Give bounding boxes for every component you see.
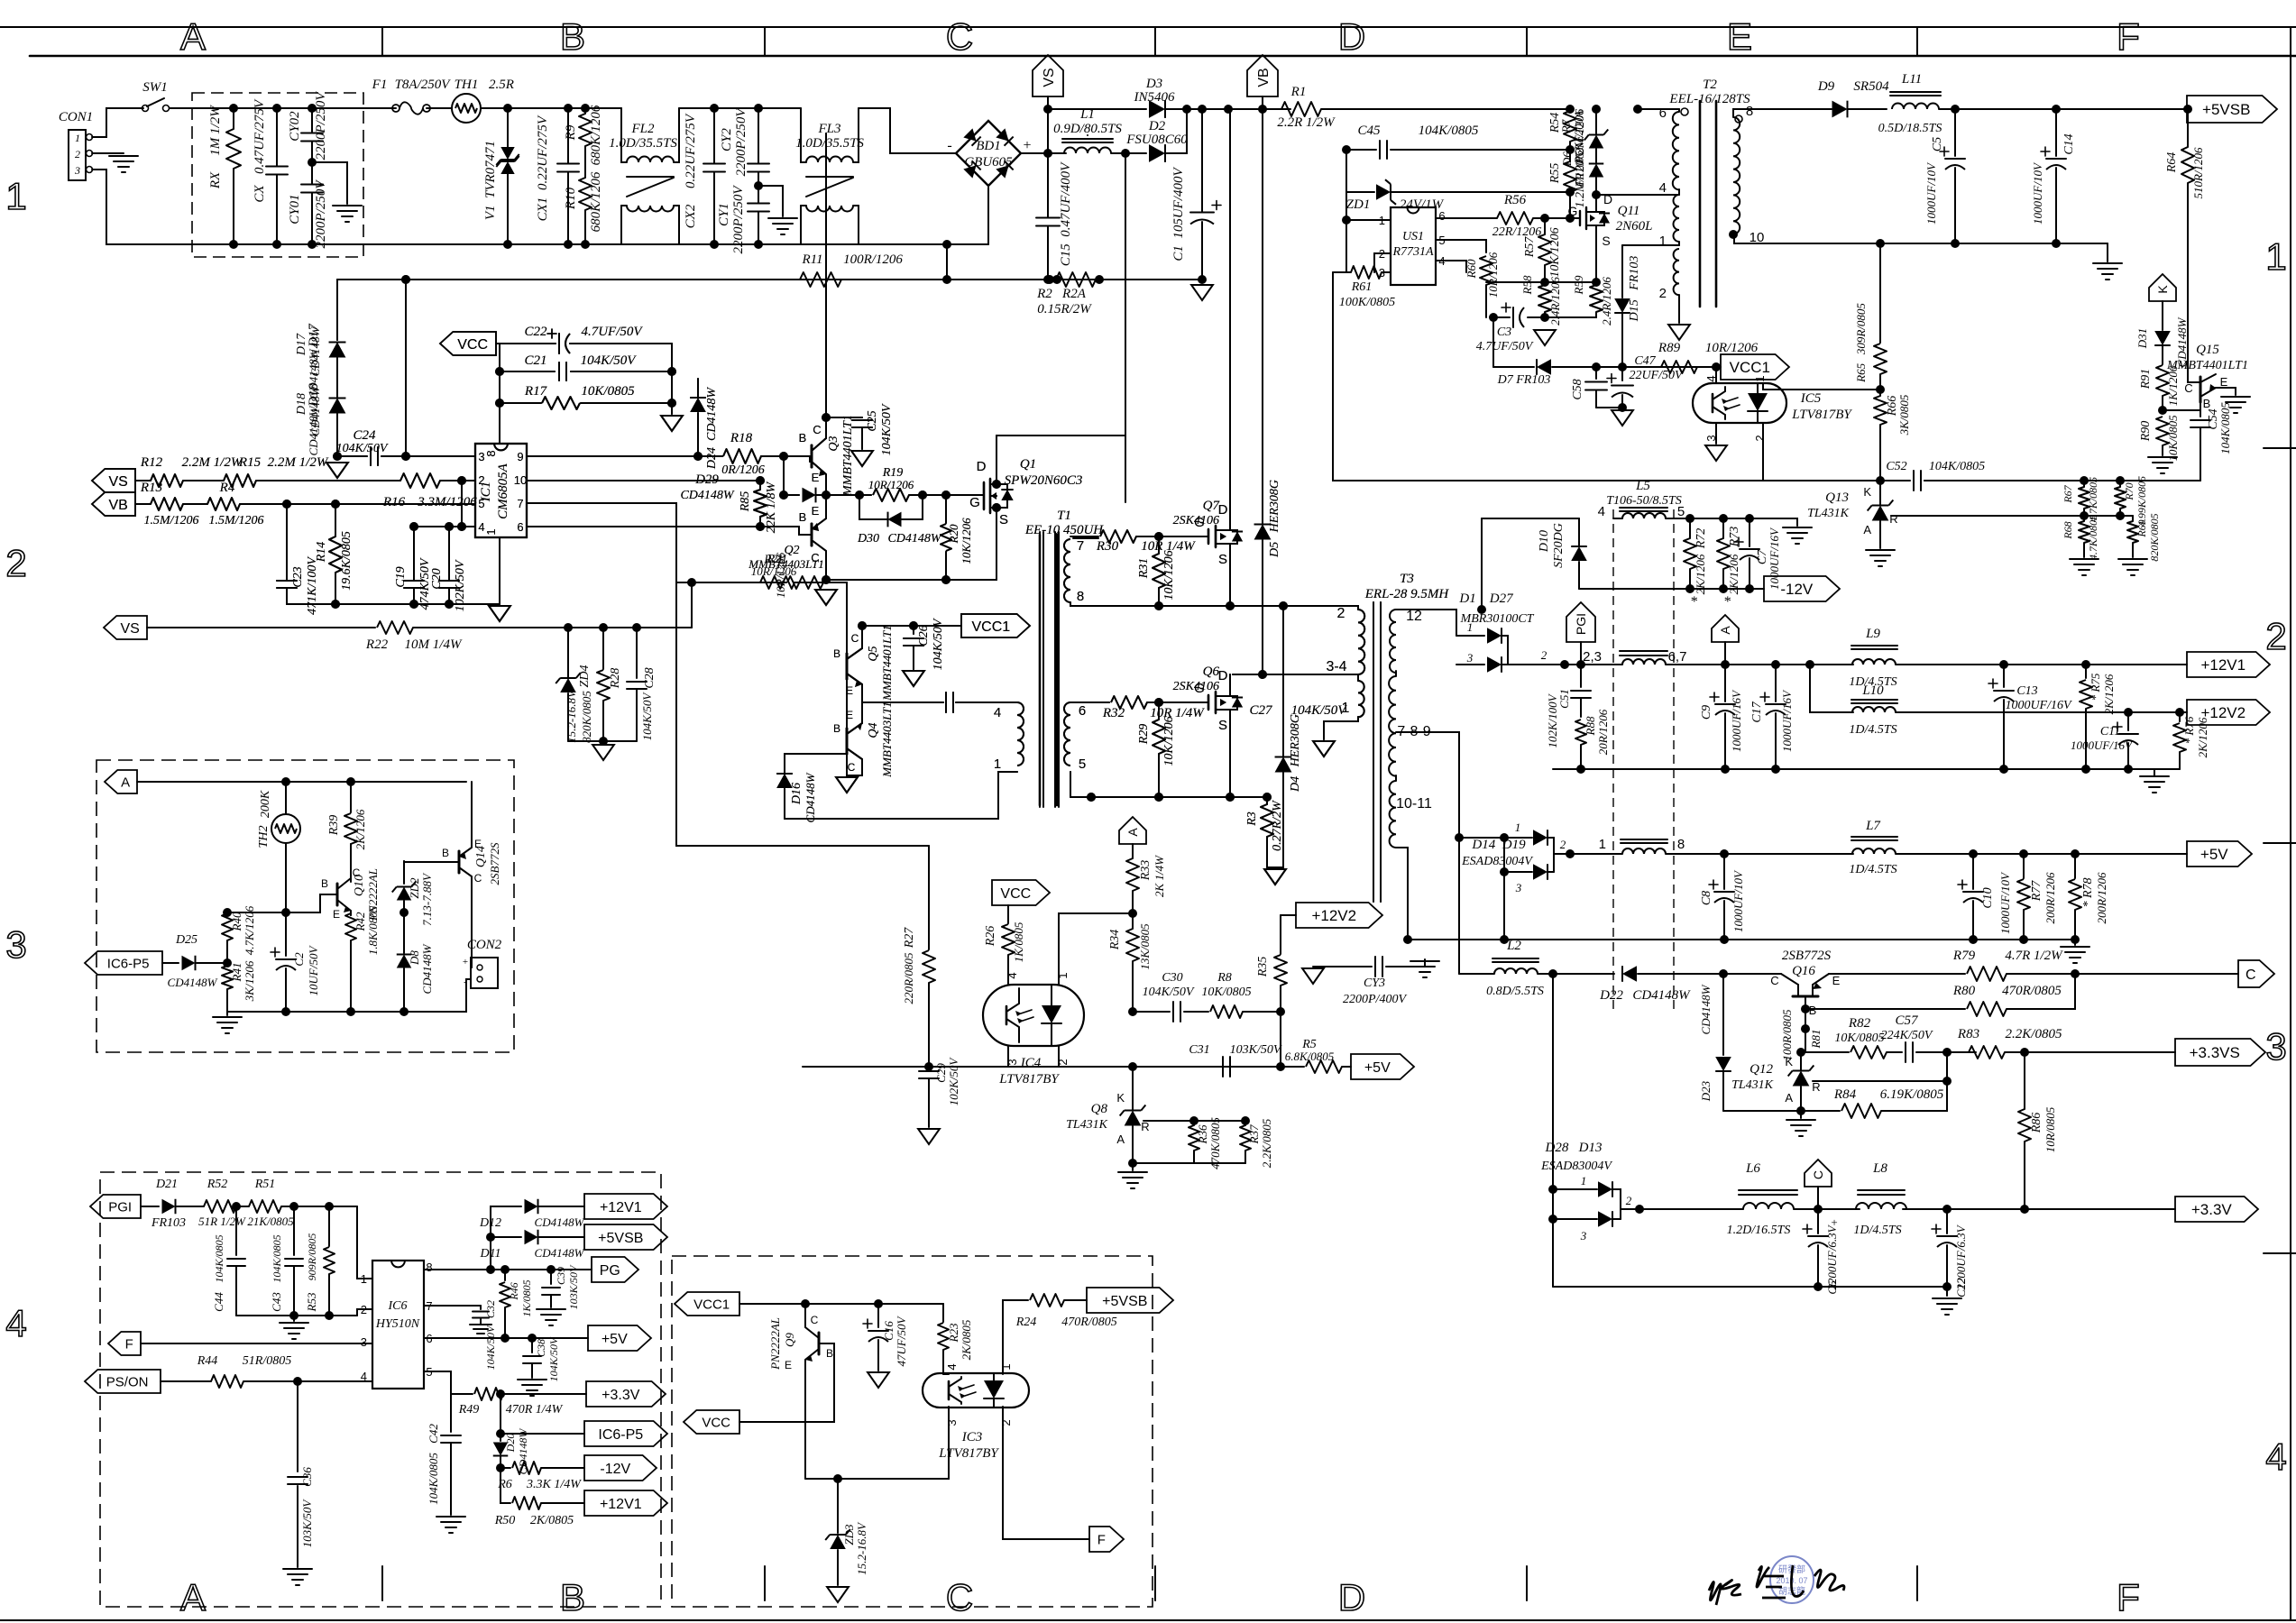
- resistor R16: [400, 473, 440, 488]
- capacitor C36: [297, 1381, 298, 1472]
- transistor Q9: [818, 1333, 821, 1354]
- svg-text:D10: D10: [1538, 530, 1551, 553]
- ground triangle under C26: [903, 671, 924, 686]
- ground bars -12V: [1783, 518, 1797, 526]
- net flag +12V1: [2187, 652, 2270, 677]
- svg-text:R2 R2A: R2 R2A: [1036, 287, 1087, 301]
- svg-text:4.7K/1206: 4.7K/1206: [243, 905, 256, 955]
- connector CON1: [69, 130, 86, 180]
- svg-text:+3.3V: +3.3V: [602, 1388, 640, 1403]
- ground at CON1: [109, 155, 138, 157]
- T3 left winding 3-4 to 1: [1358, 681, 1364, 717]
- resistor R15: [183, 480, 224, 481]
- svg-text:D18: D18: [307, 383, 321, 408]
- svg-text:104K/50V: 104K/50V: [581, 353, 638, 368]
- capacitor C26: [913, 626, 914, 634]
- IC4 pin3 wire: [1007, 1046, 1009, 1067]
- ground triangle C16: [868, 1372, 889, 1388]
- svg-text:102K/50V: 102K/50V: [947, 1057, 960, 1106]
- svg-text:0.22UF/275V: 0.22UF/275V: [684, 113, 698, 188]
- svg-text:R9: R9: [564, 124, 578, 141]
- svg-text:3K/1206: 3K/1206: [243, 960, 256, 1002]
- MOSFET Q1: [983, 482, 985, 509]
- resistor R85: [754, 490, 767, 517]
- T3 tap 3-4 row: [1233, 674, 1358, 675]
- svg-text:B: B: [826, 1347, 833, 1360]
- ground bars R90: [2148, 456, 2177, 458]
- svg-text:B: B: [560, 1576, 585, 1618]
- svg-text:2: 2: [478, 473, 484, 487]
- svg-text:R91: R91: [2139, 369, 2153, 390]
- svg-text:104K/50V: 104K/50V: [880, 403, 894, 455]
- T1 drive winding 4-1: [1017, 702, 1024, 766]
- row 533 to C54 column: [1924, 480, 2200, 481]
- svg-text:+3.3VS: +3.3VS: [2190, 1044, 2240, 1061]
- ground bars +5V return: [2074, 940, 2076, 945]
- +5V return rail: [1408, 939, 2075, 940]
- svg-text:FL2: FL2: [630, 122, 655, 136]
- ground triangle under Q2: [815, 590, 837, 605]
- svg-text:LTV817BY: LTV817BY: [1791, 408, 1852, 422]
- ground triangle below D18: [326, 463, 348, 478]
- svg-text:BD1: BD1: [976, 139, 1001, 153]
- svg-text:3: 3: [5, 923, 26, 966]
- svg-text:1000UF/16V: 1000UF/16V: [1768, 527, 1781, 590]
- svg-text:7: 7: [517, 497, 523, 510]
- Q5/Q4 emitter join and C27 row: [862, 684, 943, 702]
- svg-text:103K/50V: 103K/50V: [1230, 1043, 1282, 1057]
- svg-text:R: R: [1141, 1120, 1149, 1133]
- svg-text:10M 1/4W: 10M 1/4W: [405, 637, 463, 652]
- net flag -12V in IC6 block: [584, 1455, 657, 1481]
- MOSFET Q7: [1208, 529, 1209, 544]
- svg-text:-12V: -12V: [1780, 581, 1814, 598]
- svg-text:B: B: [321, 877, 328, 890]
- pin9 row to R18: [527, 455, 722, 457]
- svg-text:+: +: [1023, 138, 1031, 153]
- resistor R34: [1132, 913, 1134, 929]
- resistor R1: [1281, 102, 1321, 116]
- svg-text:C47: C47: [1634, 354, 1656, 368]
- resistor R32 row: [1070, 701, 1109, 703]
- net flag +3.3VS: [2175, 1039, 2265, 1066]
- varistor V1: [503, 104, 512, 113]
- svg-text:10K/0805: 10K/0805: [2166, 415, 2180, 462]
- R54 R55 column from top rail: [1566, 105, 1575, 114]
- net flag A left: [105, 770, 137, 793]
- svg-text:TL431K: TL431K: [1066, 1118, 1108, 1132]
- svg-text:B: B: [1809, 1004, 1817, 1017]
- svg-text:R58: R58: [1520, 275, 1534, 295]
- svg-text:820K/0805: 820K/0805: [2148, 513, 2161, 561]
- svg-text:C10: C10: [1981, 887, 1995, 908]
- svg-text:R15: R15: [238, 455, 262, 470]
- drive winding bottom return: [785, 772, 1017, 819]
- svg-text:C36: C36: [300, 1467, 314, 1487]
- capacitor C5: [1951, 105, 1960, 114]
- svg-text:R67: R67: [2062, 484, 2074, 503]
- svg-text:C21: C21: [524, 353, 546, 368]
- IC3 pin2 to F flag: [1003, 1407, 1089, 1539]
- svg-text:D25: D25: [175, 933, 197, 947]
- base tie Q5 Q4: [846, 679, 848, 729]
- net flag +12V2: [2187, 700, 2270, 725]
- diode D24: [697, 379, 699, 397]
- resistor R8: [1210, 1005, 1243, 1018]
- TVS R7 P6KE200A and diode D6: [1592, 105, 1601, 114]
- transistor Q4: [846, 729, 849, 754]
- pin4 row left caps: [414, 526, 462, 527]
- svg-text:CON2: CON2: [467, 938, 502, 952]
- transistor Q3: [811, 445, 813, 467]
- IC5 pin1 wire: [1763, 383, 1880, 390]
- ground triangle IC1: [489, 606, 510, 621]
- svg-text:R40: R40: [230, 912, 243, 931]
- thermistor TH2: [285, 782, 287, 814]
- capacitor C57: [1887, 1051, 1902, 1053]
- svg-text:SPW20N60C3: SPW20N60C3: [1005, 473, 1083, 488]
- svg-text:R72: R72: [1694, 528, 1708, 550]
- MOSFET Q11: [1579, 211, 1581, 225]
- svg-text:C9: C9: [1700, 705, 1713, 720]
- resistor R84: [1725, 1110, 1840, 1112]
- optocoupler IC4: [983, 985, 1084, 1046]
- svg-text:10R/1206: 10R/1206: [774, 552, 787, 598]
- svg-text:2K/0805: 2K/0805: [530, 1514, 574, 1527]
- T2 secondary winding 8-10: [1733, 109, 1740, 117]
- ground triangle IC1: [489, 606, 510, 621]
- resistor R60: [1480, 256, 1492, 285]
- svg-text:6: 6: [517, 520, 523, 534]
- drive winding bottom return: [785, 772, 1017, 819]
- capacitor CY02: [301, 133, 323, 134]
- svg-text:R28: R28: [609, 668, 622, 690]
- svg-text:C15 0.47UF/400V: C15 0.47UF/400V: [1059, 161, 1073, 266]
- svg-text:A: A: [1125, 828, 1140, 837]
- D23 to R84 row: [1723, 1110, 1725, 1112]
- svg-text:D: D: [1338, 15, 1365, 58]
- svg-text:D30: D30: [857, 532, 879, 546]
- svg-text:VB: VB: [108, 498, 127, 513]
- +5V winding 1-8: [1570, 853, 1622, 855]
- svg-text:Q9: Q9: [783, 1333, 796, 1347]
- switch SW1: [142, 105, 149, 112]
- resistor R59: [1590, 285, 1603, 312]
- capacitor C14: [2052, 105, 2061, 114]
- resistor R76: [2179, 712, 2181, 721]
- resistor R49 to +3.3V: [451, 1393, 473, 1395]
- svg-text:R36: R36: [1196, 1124, 1209, 1144]
- IC1 ground rail: [287, 603, 500, 605]
- svg-text:R39: R39: [327, 815, 341, 837]
- svg-text:3: 3: [1580, 1229, 1587, 1242]
- net flag -12V: [1764, 576, 1840, 601]
- net flag +3.3V in IC6 block: [586, 1381, 666, 1407]
- pin4 row left caps: [414, 526, 462, 527]
- svg-text:R27: R27: [903, 927, 916, 949]
- svg-text:1D/4.5TS: 1D/4.5TS: [1853, 1224, 1901, 1237]
- svg-text:8: 8: [1077, 589, 1084, 604]
- diode D17: [329, 343, 346, 358]
- svg-text:R: R: [1889, 512, 1897, 526]
- svg-text:1.5M/1206: 1.5M/1206: [143, 514, 198, 527]
- svg-text:3: 3: [2265, 1025, 2286, 1068]
- svg-text:R84: R84: [1833, 1087, 1857, 1102]
- svg-text:D21: D21: [155, 1178, 178, 1191]
- IC6-P5 row: [500, 1394, 501, 1434]
- svg-text:L5: L5: [1635, 479, 1650, 493]
- svg-text:-12V: -12V: [600, 1462, 630, 1477]
- source row 884: [1070, 796, 1267, 798]
- svg-text:3: 3: [1515, 881, 1522, 894]
- svg-text:+5VSB: +5VSB: [2202, 101, 2250, 118]
- svg-text:F: F: [125, 1336, 133, 1352]
- svg-text:K: K: [1863, 485, 1871, 499]
- svg-text:FR107: FR107: [1573, 155, 1586, 188]
- capacitor CX1: [557, 163, 579, 165]
- svg-text:1: 1: [361, 1272, 367, 1286]
- svg-text:2: 2: [1626, 1194, 1632, 1207]
- wire D19 jog to return rail: [1503, 838, 1505, 940]
- svg-text:1000UF/10V: 1000UF/10V: [1924, 161, 1938, 225]
- net flag VCC1 in IC3 block: [675, 1292, 739, 1316]
- svg-text:+5V: +5V: [1364, 1060, 1391, 1076]
- left node column: [1345, 150, 1347, 272]
- capacitor C26: [913, 626, 914, 634]
- svg-text:R30: R30: [1096, 539, 1119, 554]
- svg-text:1000UF/10V: 1000UF/10V: [1731, 869, 1745, 932]
- ground triangle below R17 column: [661, 416, 683, 431]
- svg-text:C: C: [848, 761, 856, 774]
- svg-text:E: E: [1727, 15, 1752, 58]
- svg-text:0.47UF/275V: 0.47UF/275V: [253, 98, 267, 174]
- svg-text:E: E: [785, 1359, 792, 1371]
- svg-text:22K 1/8W: 22K 1/8W: [765, 481, 778, 533]
- IC4 pin1 wire to R33 node: [1059, 913, 1133, 985]
- svg-text:2: 2: [2265, 615, 2286, 657]
- net flag +5VSB: [2187, 96, 2277, 123]
- net flag VS: [1033, 55, 1063, 96]
- VCC1 column to Q3 collector: [825, 133, 827, 438]
- diode D4: [1282, 606, 1284, 756]
- IC6 block ground row: [236, 1315, 357, 1316]
- svg-text:C2: C2: [292, 952, 306, 967]
- resistor R50 to +12V1: [501, 1468, 510, 1503]
- resistor R83: [1969, 1046, 2005, 1059]
- svg-text:1: 1: [75, 132, 80, 144]
- svg-text:L9: L9: [1865, 627, 1880, 641]
- svg-text:ESAD83004V: ESAD83004V: [1461, 855, 1533, 868]
- resistor R9: [579, 114, 592, 146]
- net flag A: [1712, 615, 1739, 642]
- svg-text:2200UF/6.3V: 2200UF/6.3V: [1825, 1224, 1839, 1289]
- svg-text:B: B: [799, 431, 807, 445]
- svg-text:C16: C16: [882, 1321, 895, 1341]
- svg-text:10: 10: [514, 473, 527, 487]
- svg-text:IC3: IC3: [961, 1430, 983, 1444]
- svg-text:2: 2: [75, 148, 80, 160]
- svg-text:R49: R49: [458, 1403, 480, 1417]
- svg-text:C32: C32: [484, 1300, 497, 1318]
- svg-text:C58: C58: [1571, 379, 1584, 399]
- wire bridge plus to L1: [1021, 152, 1066, 154]
- svg-text:104K/0805: 104K/0805: [427, 1453, 440, 1505]
- svg-text:R18: R18: [730, 431, 753, 445]
- svg-text:2.2K/0805: 2.2K/0805: [1260, 1118, 1273, 1168]
- ground in filter box: [333, 205, 362, 206]
- svg-text:S: S: [1218, 552, 1227, 567]
- svg-text:3.3K 1/4W: 3.3K 1/4W: [526, 1478, 582, 1491]
- svg-text:CX2: CX2: [684, 204, 698, 228]
- svg-text:C23: C23: [291, 566, 305, 587]
- svg-text:CD4148W: CD4148W: [168, 976, 218, 989]
- svg-text:ERL-28 9.5MH: ERL-28 9.5MH: [1364, 587, 1450, 601]
- svg-text:US1: US1: [1402, 230, 1424, 243]
- resistor R13: [135, 503, 151, 505]
- svg-text:2.2K/0805: 2.2K/0805: [2006, 1027, 2062, 1041]
- svg-text:A: A: [1116, 1132, 1125, 1146]
- resistor R10: [579, 178, 592, 210]
- svg-text:D16: D16: [790, 783, 804, 805]
- resistor R85: [754, 490, 767, 517]
- svg-text:R50: R50: [494, 1514, 516, 1527]
- svg-text:0.27R/2W: 0.27R/2W: [1271, 800, 1284, 851]
- svg-text:C20: C20: [430, 568, 444, 589]
- net flag +12V1 in IC6 block: [584, 1194, 667, 1219]
- diode D4: [1282, 606, 1284, 756]
- T3 secondary winding 10-11: [1390, 781, 1396, 848]
- svg-text:2: 2: [1560, 838, 1566, 851]
- svg-text:2.2M 1/2W: 2.2M 1/2W: [268, 455, 329, 470]
- resistor R42: [350, 912, 352, 915]
- dashed input filter box: [192, 93, 363, 257]
- capacitor C58: [1595, 367, 1597, 379]
- node R18 to Q3 base: [761, 455, 812, 457]
- US1 pin1 wire: [1346, 219, 1391, 221]
- ground bars C36: [283, 1568, 312, 1570]
- svg-text:Q11: Q11: [1618, 204, 1640, 218]
- svg-text:7.13-7.88V: 7.13-7.88V: [420, 872, 434, 926]
- bridge rectifier BD1: [956, 121, 1021, 186]
- resistor R11: [800, 272, 841, 287]
- T1 pin5 stub: [1070, 772, 1071, 797]
- svg-text:Q7: Q7: [1203, 499, 1221, 513]
- transistor Q14: [458, 851, 461, 873]
- svg-text:5: 5: [1079, 756, 1086, 772]
- svg-text:CX1: CX1: [536, 197, 550, 222]
- resistor R20: [945, 495, 947, 523]
- svg-text:D14 D19: D14 D19: [1471, 838, 1526, 852]
- +12V return rail: [1553, 768, 2180, 770]
- resistor R51: [249, 1200, 281, 1213]
- svg-text:6.8K/0805: 6.8K/0805: [1285, 1050, 1335, 1063]
- capacitor C11: [2127, 712, 2129, 730]
- ground triangle under C29: [918, 1129, 940, 1144]
- shunt regulator Q13 TL431K: [1879, 481, 1881, 505]
- zener ZD1: [1346, 191, 1374, 193]
- net flag PS/ON left: [85, 1370, 161, 1393]
- capacitor C52: [1880, 480, 1910, 481]
- capacitor C20: [439, 580, 459, 582]
- resistor R78: [2074, 854, 2076, 878]
- capacitor C54: [2163, 409, 2200, 411]
- optocoupler IC5: [1693, 383, 1786, 423]
- svg-text:8: 8: [1746, 104, 1753, 119]
- svg-text:C26: C26: [917, 625, 931, 646]
- svg-text:C29: C29: [934, 1063, 948, 1083]
- Q1 source row: [826, 579, 996, 581]
- +5VSB rail from T2 pin8: [1740, 108, 1832, 110]
- capacitor C27: [945, 692, 947, 712]
- svg-text:C57: C57: [1895, 1013, 1919, 1028]
- svg-text:R68: R68: [2062, 521, 2074, 539]
- resistor R69: [2127, 521, 2138, 543]
- svg-text:1: 1: [1581, 1174, 1587, 1187]
- net flag PG: [592, 1257, 638, 1282]
- transistor Q4: [846, 729, 849, 754]
- resistor R89: [1661, 361, 1697, 373]
- T1 pin5 stub: [1070, 772, 1071, 797]
- svg-text:VB: VB: [1256, 68, 1272, 87]
- resistor R26: [1002, 924, 1015, 955]
- svg-text:1000UF/16V: 1000UF/16V: [1780, 689, 1794, 752]
- svg-text:3K/0805: 3K/0805: [1897, 394, 1911, 436]
- svg-text:1: 1: [5, 175, 26, 217]
- svg-text:4: 4: [5, 1302, 26, 1344]
- svg-text:2200P/250V: 2200P/250V: [734, 107, 748, 177]
- diode D16: [784, 789, 785, 819]
- svg-text:D22: D22: [1599, 988, 1623, 1003]
- svg-text:B: B: [833, 647, 840, 660]
- svg-text:4.7UF/50V: 4.7UF/50V: [1476, 340, 1534, 353]
- svg-text:R20: R20: [947, 524, 960, 544]
- svg-text:CD4148W: CD4148W: [680, 489, 734, 502]
- svg-text:1.8K/0805: 1.8K/0805: [366, 905, 380, 955]
- svg-text:PS/ON: PS/ON: [106, 1374, 149, 1389]
- svg-text:R8: R8: [1217, 971, 1232, 985]
- svg-text:102K/100V: 102K/100V: [1546, 692, 1559, 747]
- svg-text:C30: C30: [1162, 971, 1182, 985]
- Q15 emitter ground: [2216, 388, 2236, 395]
- ground bars TH2 block: [226, 1012, 228, 1015]
- svg-text:VS: VS: [1042, 68, 1057, 87]
- net flag VCC in IC3 block: [684, 1410, 739, 1434]
- svg-text:4.7R 1/2W: 4.7R 1/2W: [2005, 949, 2063, 963]
- svg-text:A: A: [1718, 626, 1732, 635]
- ground triangle under C1: [1191, 285, 1213, 300]
- resistor R5: [1281, 1066, 1304, 1068]
- net flag +12V2 center: [1296, 903, 1382, 928]
- T2 winding 6-4: [1638, 108, 1679, 110]
- svg-text:RX: RX: [208, 171, 223, 189]
- US1 pin4 row: [1436, 261, 1466, 272]
- svg-text:PGI: PGI: [1574, 613, 1588, 635]
- svg-text:2: 2: [1337, 606, 1345, 621]
- svg-text:R90: R90: [2139, 421, 2153, 443]
- svg-text:R77: R77: [2030, 880, 2043, 903]
- svg-text:Q16: Q16: [1792, 964, 1815, 978]
- ground triangle under R58: [1534, 330, 1556, 345]
- transistor Q5: [846, 654, 849, 679]
- diode D18: [329, 399, 346, 414]
- MOSFET Q1: [983, 482, 985, 509]
- svg-text:R61: R61: [1351, 280, 1373, 294]
- svg-text:R: R: [1812, 1080, 1820, 1094]
- capacitor C27: [945, 692, 947, 712]
- resistor R31: [1153, 554, 1165, 588]
- Q4 collector to D16: [847, 754, 862, 775]
- svg-text:22UF/50V: 22UF/50V: [1629, 369, 1684, 382]
